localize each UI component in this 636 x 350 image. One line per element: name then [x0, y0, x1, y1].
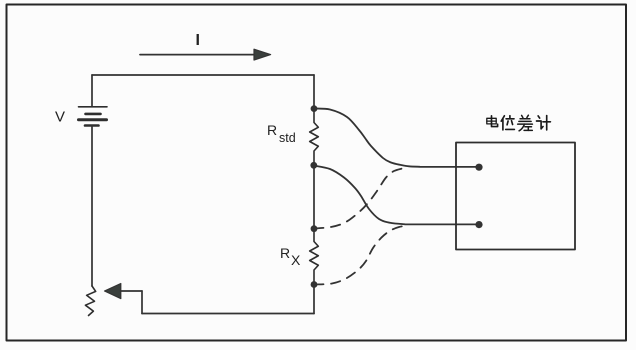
current arrow I	[140, 49, 271, 60]
wire bottom horizontal	[142, 313, 314, 315]
wire curve A Rstd-top to box top terminal	[314, 109, 479, 167]
svg-text:V: V	[55, 109, 65, 126]
wire battery top	[91, 75, 93, 107]
node box bottom terminal	[475, 221, 482, 228]
svg-text:X: X	[291, 252, 301, 268]
svg-text:I: I	[196, 32, 200, 49]
wire top horizontal	[92, 74, 314, 76]
node Rstd top	[311, 105, 318, 112]
char 位	[501, 116, 514, 130]
label 电位差计	[487, 115, 551, 131]
wire left vertical	[91, 126, 93, 287]
svg-text:std: std	[279, 131, 296, 145]
wiper arrow	[105, 284, 121, 299]
resistor RX	[310, 229, 319, 285]
wire between resistors	[313, 165, 315, 229]
svg-text:R: R	[267, 122, 277, 138]
node box top terminal	[475, 164, 482, 171]
svg-text:R: R	[280, 245, 290, 261]
char 差	[518, 115, 533, 131]
battery V	[79, 107, 108, 126]
wire R_X bottom vertical	[313, 285, 315, 314]
node Rstd bottom	[310, 162, 317, 169]
char 电	[487, 116, 498, 127]
node RX top	[311, 225, 318, 232]
wire wiper horizontal	[121, 290, 143, 292]
char 计	[537, 116, 551, 130]
wire dashed C RX-top to top terminal	[314, 168, 403, 228]
resistor Rstd	[310, 109, 319, 166]
wire top-right vertical to R_std	[313, 75, 315, 106]
node RX bottom	[311, 281, 318, 288]
potentiometer box U1	[456, 143, 575, 250]
rheostat	[85, 286, 95, 316]
wire dashed D RX-bottom to bottom terminal	[314, 225, 409, 284]
wire wiper vertical	[141, 291, 143, 314]
wire curve B Rstd-bottom to box bottom terminal	[314, 166, 480, 225]
